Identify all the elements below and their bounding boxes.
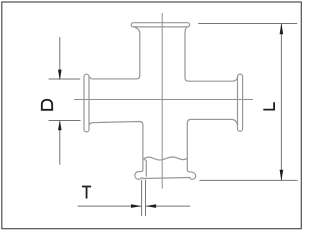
label L (rotated) — [263, 102, 275, 110]
break line on bottom leg — [143, 157, 187, 160]
T extension line right — [145, 180, 147, 216]
bottom ferrule left ear — [135, 170, 143, 179]
top ferrule neck left and top leg left wall — [134, 27, 139, 79]
vertical centerline — [161, 13, 163, 189]
top ferrule flange — [131, 23, 189, 27]
T extension line left — [141, 180, 143, 216]
right ferrule flange — [238, 74, 243, 131]
D dimension line bottom segment — [59, 121, 61, 165]
bottom leg left wall — [142, 125, 144, 170]
T arrow left — [131, 204, 142, 208]
D dimension line top segment — [59, 37, 61, 79]
horizontal centerline — [74, 99, 253, 101]
top ferrule neck right and top leg right wall — [185, 27, 189, 81]
right arm bottom wall — [187, 119, 237, 124]
L dimension line — [280, 24, 282, 181]
right arm top wall — [189, 78, 238, 82]
T arrow right — [146, 204, 157, 208]
bottom ferrule right ear — [187, 170, 195, 179]
inner wall section line below break — [145, 160, 147, 177]
T dimension line right segment — [146, 205, 190, 207]
left arm bottom wall — [89, 122, 143, 126]
L arrow top — [280, 23, 284, 34]
left ferrule flange — [84, 74, 89, 132]
D extension line top — [49, 78, 81, 80]
D arrow bottom — [58, 120, 62, 130]
label T — [82, 186, 91, 199]
bottom ferrule face line — [143, 178, 190, 179]
L extension line top — [198, 22, 297, 24]
label D (rotated) — [41, 99, 53, 111]
L arrow bottom — [280, 170, 284, 181]
D extension line bottom — [49, 120, 81, 122]
bottom leg right wall — [186, 123, 188, 170]
T dimension line left segment — [78, 205, 141, 207]
L extension line bottom — [200, 179, 298, 181]
D arrow top — [58, 70, 62, 81]
left arm top wall — [89, 77, 136, 79]
